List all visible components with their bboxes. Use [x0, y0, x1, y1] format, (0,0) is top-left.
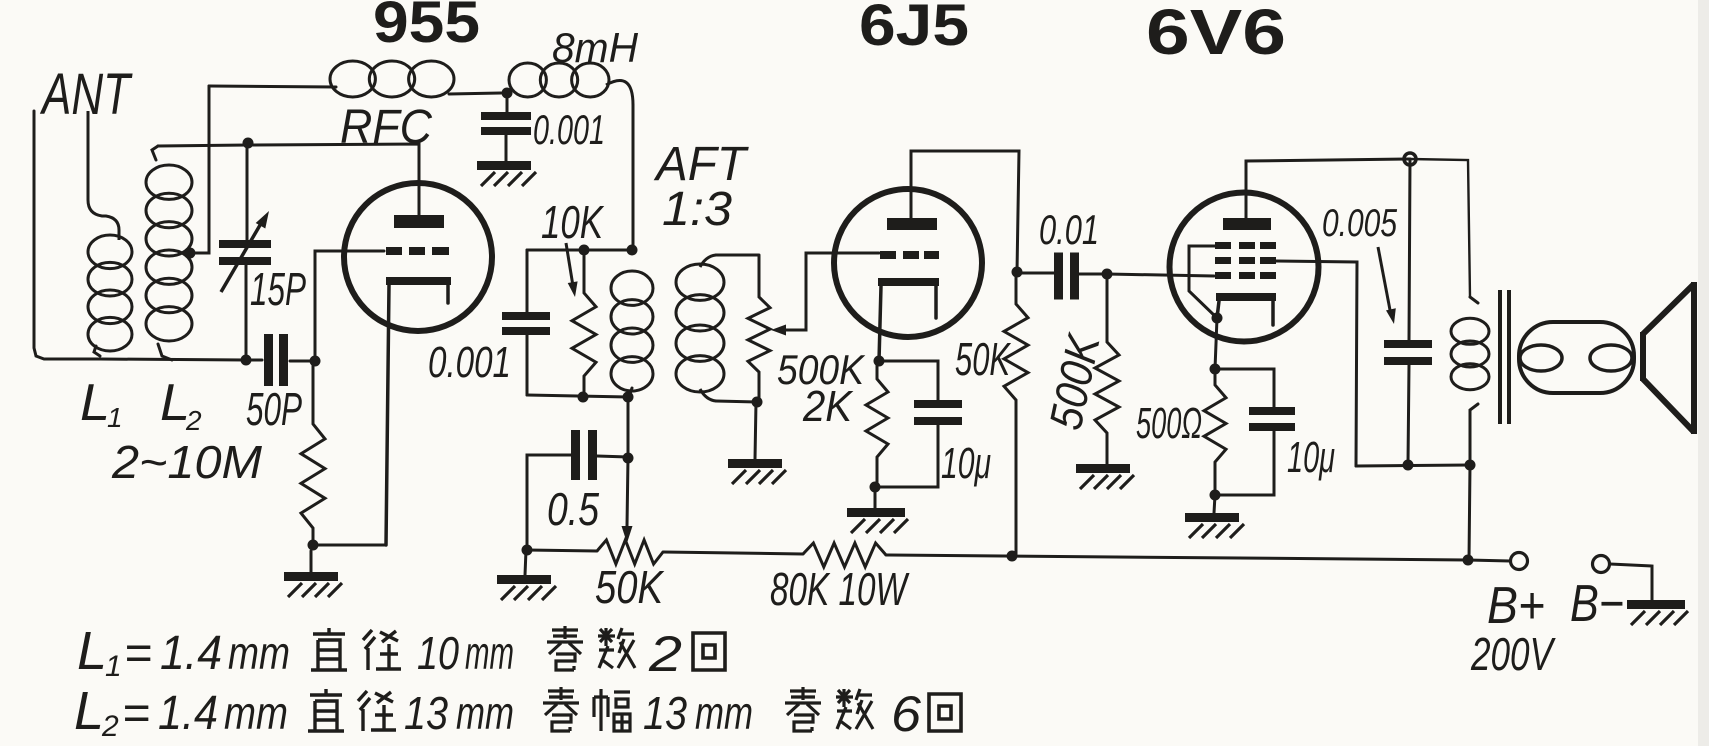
resistor 500K AF pot	[748, 255, 770, 402]
note line2 13mm b	[643, 687, 753, 739]
svg-text:1:3: 1:3	[662, 183, 732, 236]
arrow 10K pointer	[566, 243, 578, 297]
resistor 2~10M	[301, 361, 325, 545]
resistor 2K	[866, 361, 888, 487]
wire 6V6 cathode lead	[1215, 318, 1217, 369]
node 0.005 bottom	[1403, 460, 1414, 471]
wire secondary top	[716, 254, 759, 257]
wire screen/B+ tie	[1356, 465, 1470, 466]
6J5 grid	[880, 251, 939, 259]
wire 6J5 plate lead	[911, 151, 1019, 272]
svg-text:50K: 50K	[955, 333, 1012, 385]
label 50P	[246, 383, 302, 435]
resistor 10K	[572, 250, 596, 397]
ground 500K grid	[1076, 464, 1134, 489]
inductor AFT secondary	[676, 255, 757, 402]
label 10u 6V6	[1287, 433, 1335, 482]
svg-text:B−: B−	[1570, 575, 1624, 633]
node 6V6 cathode tie	[1212, 313, 1223, 324]
label 2K	[802, 382, 853, 431]
note line1 L1 spec	[77, 621, 290, 683]
node L2 tap	[185, 248, 196, 259]
svg-text:ANT: ANT	[40, 62, 133, 127]
wiper 500K to 6J5 grid	[771, 253, 879, 336]
svg-text:10: 10	[417, 627, 459, 679]
node tank top left	[579, 245, 590, 256]
tube 955 envelope	[344, 183, 492, 331]
inductor L1	[88, 235, 132, 356]
svg-text:13: 13	[404, 687, 448, 739]
svg-text:2: 2	[101, 710, 119, 743]
svg-text:1.4: 1.4	[158, 687, 218, 740]
inductor AFT primary	[611, 271, 653, 397]
arrow wiper to 50K	[622, 458, 633, 543]
capacitor 0.001 tank	[502, 250, 550, 395]
inductor RFC	[330, 61, 501, 97]
wire plate line	[248, 144, 419, 216]
capacitor 15P	[219, 145, 271, 355]
node wiper junction	[623, 453, 634, 464]
6V6 beam plates bracket	[1189, 246, 1217, 318]
svg-text:=: =	[124, 627, 152, 680]
note line1 10mm	[417, 627, 514, 679]
svg-text:10μ: 10μ	[941, 439, 991, 488]
note line1 kanji kai	[693, 633, 725, 670]
svg-text:mm: mm	[695, 687, 753, 739]
svg-text:L: L	[77, 621, 107, 681]
node tank bottom left	[578, 392, 589, 403]
svg-text:10μ: 10μ	[1287, 433, 1335, 482]
label 500K pot	[777, 346, 866, 393]
capacitor 10u bypass	[875, 361, 962, 487]
ground under grid leak	[284, 551, 342, 597]
arrow 15P variable	[221, 211, 269, 292]
node 15P bottom	[241, 355, 252, 366]
6V6 grids 3x3	[1215, 242, 1276, 279]
svg-text:2~10M: 2~10M	[111, 436, 263, 488]
label 500ohm	[1136, 399, 1202, 448]
note line2 kanji diameter	[308, 689, 396, 731]
svg-text:0.01: 0.01	[1039, 206, 1099, 253]
node tank top right	[627, 245, 638, 256]
wire grid riser	[315, 251, 384, 361]
svg-text:8mH: 8mH	[552, 24, 639, 71]
svg-text:B+: B+	[1487, 577, 1545, 635]
note line1 kanji diameter	[311, 628, 401, 670]
label 2~10M	[111, 436, 263, 488]
OPT core	[1500, 290, 1509, 424]
wire L2 top to plate line	[158, 145, 248, 146]
capacitor 0.01	[1017, 253, 1105, 300]
node OPT bottom tie	[1465, 460, 1476, 471]
capacitor 0.001 plate bypass	[481, 93, 531, 161]
label 500K grid rotated	[1039, 328, 1110, 434]
note line1 kanji turns	[547, 626, 635, 670]
6J5 cathode	[878, 278, 939, 361]
955 cathode	[386, 277, 451, 545]
resistor 80K 10W	[803, 543, 886, 567]
wire to 6V6 grid	[1107, 274, 1214, 276]
ground rail left	[497, 550, 556, 600]
wire antenna left lead	[34, 111, 100, 359]
svg-text:6J5: 6J5	[859, 0, 969, 58]
svg-text:955: 955	[373, 0, 480, 55]
wire 50P jumpers	[246, 360, 313, 361]
inductor L2	[146, 146, 192, 360]
resistor 50K regen pot	[597, 540, 663, 564]
label 50K plate load	[955, 333, 1012, 385]
svg-text:0.001: 0.001	[428, 338, 511, 387]
node rail 50K plate	[1007, 551, 1018, 562]
resistor 500K grid	[1095, 274, 1119, 464]
label L1	[80, 374, 123, 433]
tube 6J5 envelope	[834, 189, 982, 337]
node 6V6 cathode junction	[1210, 364, 1221, 375]
6J5 plate	[887, 218, 937, 230]
capacitor 10u 6V6	[1215, 369, 1295, 495]
tube 6V6 envelope	[1170, 193, 1319, 342]
node grid leak bottom	[308, 540, 319, 551]
svg-text:2: 2	[648, 626, 682, 682]
node 15P top	[243, 138, 254, 149]
label 1:3	[662, 183, 732, 236]
label 10K	[541, 196, 605, 248]
wire B+ riser	[1469, 465, 1470, 560]
svg-text:1: 1	[107, 402, 123, 433]
svg-text:L: L	[74, 681, 104, 741]
label 0.001 top	[533, 106, 605, 153]
node tank bottom right	[623, 392, 634, 403]
capacitor 0.5	[527, 430, 628, 550]
note line2 count	[891, 686, 921, 742]
note line2 kanji kai	[929, 694, 961, 731]
capacitor 50P	[264, 334, 288, 386]
ground B-	[1627, 600, 1688, 625]
wire plate to OPT	[1410, 159, 1470, 297]
resistor 500ohm	[1204, 369, 1226, 495]
svg-text:mm: mm	[224, 687, 288, 739]
label 955	[373, 0, 480, 55]
note line2 kanji width	[543, 687, 630, 731]
inductor 8mH choke	[509, 63, 633, 248]
svg-text:=: =	[122, 687, 150, 740]
svg-text:2: 2	[185, 405, 202, 436]
node 2K bottom	[870, 482, 881, 493]
terminal B-	[1593, 556, 1653, 601]
svg-text:mm: mm	[228, 627, 290, 679]
svg-text:1.4: 1.4	[160, 627, 222, 680]
wire 6V6 screen lead	[1276, 261, 1357, 466]
wire tank to wiper	[627, 397, 630, 458]
wire cathode return	[313, 544, 386, 547]
955 grid	[386, 247, 449, 255]
label 15P	[250, 263, 306, 315]
svg-text:200V: 200V	[1470, 628, 1556, 680]
svg-text:13: 13	[643, 687, 687, 739]
955 plate	[394, 215, 444, 228]
arrow 0.005 pointer	[1378, 247, 1396, 324]
svg-text:0.005: 0.005	[1322, 202, 1397, 245]
speaker voice coil	[1519, 322, 1634, 393]
svg-text:10K: 10K	[541, 196, 605, 248]
node rail left	[522, 545, 533, 556]
svg-text:80K 10W: 80K 10W	[770, 563, 910, 615]
node rail B+ branch	[1463, 555, 1474, 566]
node 6J5 cathode	[874, 356, 885, 367]
terminal B+	[1468, 553, 1528, 570]
ground 6V6 cathode	[1185, 495, 1244, 538]
note line1 count	[648, 626, 682, 682]
label AFT	[653, 138, 750, 191]
label 6J5	[859, 0, 969, 58]
svg-text:RFC: RFC	[340, 101, 432, 154]
svg-text:0.001: 0.001	[533, 106, 605, 153]
6V6 plate	[1223, 218, 1271, 230]
svg-text:500Ω: 500Ω	[1136, 399, 1202, 448]
note line2 13mm a	[404, 687, 514, 739]
svg-text:50K: 50K	[595, 561, 665, 613]
label 0.005	[1322, 202, 1397, 245]
label B-	[1570, 575, 1624, 633]
ground AFT secondary	[728, 402, 786, 484]
label ANT	[40, 62, 133, 127]
node 6J5 plate load top	[1012, 267, 1023, 278]
wire tank top	[527, 249, 633, 252]
node RFC-8mH junction	[502, 88, 513, 99]
node 500ohm bottom	[1210, 490, 1221, 501]
6V6 cathode	[1216, 293, 1276, 325]
wire tap to top line	[190, 86, 209, 253]
label 200V	[1470, 628, 1556, 680]
label 0.01	[1039, 206, 1099, 253]
svg-text:6V6: 6V6	[1146, 0, 1286, 68]
label 80K 10W	[770, 563, 910, 615]
svg-text:2K: 2K	[802, 382, 853, 431]
svg-text:L: L	[80, 374, 110, 432]
label 0.5	[547, 483, 599, 535]
label B+	[1487, 577, 1545, 635]
node 0.01 out	[1102, 269, 1113, 280]
wire 6V6 plate lead	[1246, 159, 1410, 218]
svg-text:mm: mm	[465, 627, 514, 679]
wire top line	[209, 86, 336, 87]
label 10u 6J5	[941, 439, 991, 488]
svg-text:6: 6	[891, 686, 921, 742]
wire rail segment 2	[663, 552, 803, 554]
label RFC	[340, 101, 432, 154]
svg-text:50P: 50P	[246, 383, 302, 435]
svg-text:mm: mm	[456, 687, 514, 739]
node plate line junction	[1404, 153, 1416, 165]
label 6V6	[1146, 0, 1286, 68]
label 50K pot	[595, 561, 665, 613]
note line2 kanji turns	[785, 687, 873, 731]
capacitor 0.005	[1384, 159, 1432, 464]
ground 6J5 cathode	[847, 487, 908, 533]
resistor 50K plate load	[1004, 272, 1028, 556]
wire rail segment 3	[886, 555, 1468, 560]
ground under 0.001	[477, 161, 536, 186]
label L2	[160, 374, 202, 436]
inductor OPT primary	[1451, 297, 1489, 465]
note line2 L2 spec	[74, 681, 288, 743]
label 0.001 tank	[428, 338, 511, 387]
wire tank bottom	[527, 395, 628, 397]
node 50P right / grid	[310, 356, 321, 367]
label 8mH	[552, 24, 639, 71]
svg-text:1: 1	[105, 650, 122, 683]
svg-text:15P: 15P	[250, 263, 306, 315]
wire L1-L2 bottom rail	[100, 359, 246, 360]
wire rail segment 1	[527, 550, 597, 551]
node secondary bottom	[752, 397, 763, 408]
wire antenna right lead	[88, 111, 119, 240]
speaker cone	[1643, 282, 1694, 434]
svg-text:0.5: 0.5	[547, 483, 599, 535]
